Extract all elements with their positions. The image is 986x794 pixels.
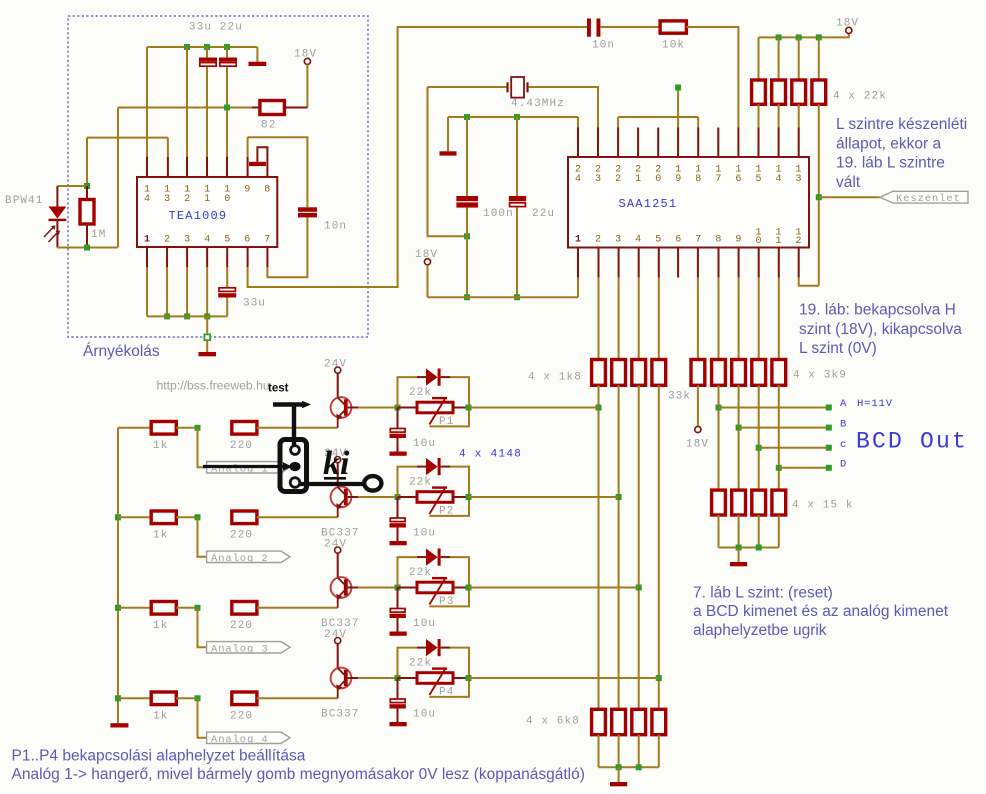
wire rail to ground bar <box>447 117 449 151</box>
shield frame crossing marker <box>204 334 210 340</box>
photodiode BPW41 <box>44 207 66 243</box>
svg-text:B: B <box>840 418 847 430</box>
wire pin 2 to R1k8 <box>598 278 600 360</box>
resistor 1M <box>80 200 94 225</box>
svg-text:33u: 33u <box>243 298 266 310</box>
svg-text:9: 9 <box>244 185 250 196</box>
wire crystal to C100n tap <box>428 87 468 236</box>
pin Q2 base lead <box>348 496 358 498</box>
wire BCD output A <box>719 407 829 409</box>
pin P2 right lead <box>453 496 469 498</box>
svg-text:ki: ki <box>323 445 350 482</box>
ground bar (C10u row 2) <box>390 541 407 545</box>
wire C10u to ground row2 <box>397 528 399 542</box>
svg-text:10u: 10u <box>413 438 436 450</box>
svg-text:BC337: BC337 <box>321 708 360 720</box>
svg-text:4 x 3k9: 4 x 3k9 <box>793 370 847 382</box>
resistor 22k #2 <box>772 80 786 104</box>
svg-text:1k: 1k <box>153 530 168 542</box>
svg-text:1M: 1M <box>91 229 106 241</box>
diode D4 1N4148 <box>426 639 441 656</box>
resistor 22k #1 <box>752 80 766 104</box>
wire R6k8 to ground bus <box>598 735 600 768</box>
svg-text:33u 22u: 33u 22u <box>189 22 243 34</box>
ground bar (15k bus) <box>730 562 747 566</box>
diode D2 1N4148 <box>426 458 441 475</box>
pin Q1 base lead <box>348 407 358 409</box>
svg-text:220: 220 <box>230 711 253 723</box>
svg-text:7: 7 <box>715 174 721 185</box>
svg-text:19. láb: bekapcsolva H: 19. láb: bekapcsolva H <box>799 302 956 319</box>
net flag Analog 3 <box>207 642 290 653</box>
svg-text:4.43MHz: 4.43MHz <box>511 98 565 110</box>
supply pin 24V (row 4) <box>335 638 341 644</box>
junction 15k bus <box>756 545 762 551</box>
capacitor 10u (row 2) <box>390 518 406 528</box>
ground bar (C10u row 4) <box>390 722 407 726</box>
svg-text:33k: 33k <box>668 391 691 403</box>
svg-text:TEA1009: TEA1009 <box>169 209 228 223</box>
wire C22u top lead <box>516 117 518 196</box>
resistor 15k #2 <box>732 490 746 515</box>
resistor 15k #3 <box>752 490 766 515</box>
wire to C10u row4 <box>397 678 399 699</box>
wire to Analog 1 flag <box>198 428 207 468</box>
wire rail to pin22 <box>617 117 619 128</box>
resistor 1k (row 2) <box>151 511 176 524</box>
svg-text:220: 220 <box>230 440 253 452</box>
resistor 6k8 #4 <box>652 709 666 734</box>
wire R1k to R220 row3 <box>176 607 197 609</box>
wire pin 4 to R1k8 <box>638 278 640 360</box>
wire C100n top lead <box>466 117 468 196</box>
pin D1 cathode lead <box>441 376 450 378</box>
svg-text:1: 1 <box>635 174 641 185</box>
svg-text:http://bss.freeweb.hu: http://bss.freeweb.hu <box>157 378 270 392</box>
wire D2 to pot right <box>450 467 469 497</box>
junction pot P1 right <box>466 405 472 411</box>
pin P1 right lead <box>453 407 469 409</box>
junction BPW41/1M bottom <box>84 245 90 251</box>
svg-text:5: 5 <box>655 235 661 246</box>
wire Q2 base to P2 net <box>358 496 398 498</box>
junction base/pot P4 <box>395 675 401 681</box>
capacitor 10u (row 1) <box>390 429 406 439</box>
svg-text:H=11V: H=11V <box>857 398 893 410</box>
wire to diode D4 <box>398 648 418 678</box>
junction base/pot P1 <box>395 405 401 411</box>
svg-text:1k: 1k <box>153 440 168 452</box>
pin P2 left lead <box>398 496 418 498</box>
junction BCD A <box>716 405 722 411</box>
arrow to Analog 1 (black) <box>203 465 284 468</box>
svg-text:4: 4 <box>775 174 781 185</box>
pin P4 right lead <box>453 677 469 679</box>
wire C22u top lead <box>226 47 228 58</box>
junction BCD D <box>776 465 782 471</box>
wire R15k to ground bus <box>778 515 780 548</box>
svg-text:6: 6 <box>675 235 681 246</box>
wire R1k8 to R6k8 #2 <box>618 385 620 709</box>
resistor 3k9 #1 <box>712 360 726 386</box>
wire 24V to Q4 collector <box>337 644 339 668</box>
wire C33u to bus <box>226 298 228 317</box>
svg-text:22k: 22k <box>409 658 432 670</box>
svg-text:7: 7 <box>264 235 270 246</box>
capacitor 33u (TEA decoupling) <box>218 288 236 298</box>
wire to Analog 3 flag <box>198 608 207 648</box>
pin Q3 base lead <box>348 587 358 589</box>
wire Q3 base to P3 net <box>358 587 398 589</box>
pin TEA1009 pin 1 <box>146 247 148 267</box>
switch contact bottom (black) <box>290 478 300 488</box>
pin SAA1251 pin 1 <box>577 248 579 278</box>
junction 6k8 bus <box>616 764 622 770</box>
resistor 15k #1 <box>712 490 726 515</box>
resistor 1k8 #3 <box>632 360 646 386</box>
wire 22k to SAA pin <box>758 104 760 127</box>
pin SAA1251 pin 2 <box>598 248 600 278</box>
shield frame Arnyekolas (dashed box) <box>68 16 368 337</box>
pin TEA1009 pin 5 <box>226 247 228 267</box>
transistor Q3 BC337 <box>331 577 352 608</box>
pin SAA1251 (22k) <box>778 128 780 158</box>
ground bar (TEA pin 8) <box>249 162 266 166</box>
wire R220 to Q3 emitter <box>257 607 338 609</box>
svg-text:L szintre készenléti: L szintre készenléti <box>836 116 967 133</box>
junction rail/C100n <box>464 114 470 120</box>
wire R6k8 to ground bus <box>638 735 640 768</box>
svg-text:4 x 6k8: 4 x 6k8 <box>526 716 580 728</box>
pin TEA1009 pin 3 <box>186 247 188 267</box>
wire R1k to R220 row4 <box>176 697 197 699</box>
junction BCD C <box>756 445 762 451</box>
pin SAA1251 pin 11 <box>778 248 780 278</box>
pin SAA1251 (22k) <box>798 128 800 158</box>
wire pin 3 to R1k8 <box>618 278 620 360</box>
op-amp U TEA1009 (IC body) <box>137 177 277 247</box>
wire R220 to Q1 emitter <box>257 427 338 429</box>
junction rail/C 22u <box>224 44 230 50</box>
pin SAA1251 pin 3 <box>618 248 620 278</box>
resistor 10k <box>660 21 686 33</box>
pin SAA1251 pin 24 <box>577 128 579 158</box>
supply pin 18V (top left) <box>304 58 310 64</box>
svg-text:1k: 1k <box>153 711 168 723</box>
svg-text:Árnyékolás: Árnyékolás <box>83 343 160 360</box>
resistor 1k (row 3) <box>151 602 176 615</box>
net flag Analog 1 <box>207 462 290 473</box>
svg-text:P1..P4 bekapcsolási alaphelyze: P1..P4 bekapcsolási alaphelyzet beállítá… <box>12 748 306 765</box>
svg-text:állapot, ekkor a: állapot, ekkor a <box>836 135 941 152</box>
junction 15k bus <box>736 545 742 551</box>
wire D4 to pot right <box>450 648 469 678</box>
wire R33k to 18V <box>697 385 699 426</box>
pin R 1M bottom lead <box>86 224 88 248</box>
wire R1k8 to R6k8 #4 <box>658 385 660 709</box>
wire bus to ground <box>618 767 620 782</box>
wire R1k8 to R6k8 #3 <box>638 385 640 709</box>
node BCD output end D <box>826 465 832 471</box>
svg-text:18V: 18V <box>686 439 709 451</box>
wire P4 wiper tie <box>429 678 469 697</box>
svg-text:10u: 10u <box>413 709 436 721</box>
resistor 220 (row 2) <box>232 511 257 524</box>
pin Q4 base lead <box>348 677 358 679</box>
wire TEA pin 1 to shield bus <box>146 267 148 316</box>
wire Q1 base to P1 net <box>358 407 398 409</box>
supply pin 24V (row 1) <box>335 367 341 373</box>
svg-text:22k: 22k <box>409 477 432 489</box>
svg-text:4 x 15 k: 4 x 15 k <box>792 500 854 512</box>
wire R6k8 to ground bus <box>618 735 620 768</box>
junction rail/pin12 <box>184 44 190 50</box>
resistor 6k8 #2 <box>612 709 626 734</box>
wire 22k top lead <box>778 37 780 80</box>
capacitor 10u (row 3) <box>390 609 406 619</box>
wire C10n to TEA pin9 <box>248 137 308 207</box>
wire 22k top lead <box>798 37 800 80</box>
wire 18V to supply bus <box>427 265 429 297</box>
wire BPW41 bottom link <box>57 247 117 249</box>
wire SAA pin1 supply bus <box>428 296 579 298</box>
svg-text:7: 7 <box>695 235 701 246</box>
wire TEA pin 4 to shield bus <box>206 267 208 316</box>
diode D1 1N4148 <box>426 369 441 386</box>
pin SAA1251 pin 23 <box>597 128 599 158</box>
svg-text:5: 5 <box>755 174 761 185</box>
pin TEA1009 pin 9 <box>247 157 249 177</box>
svg-text:1: 1 <box>204 194 210 205</box>
resistor 220 (row 1) <box>232 422 257 435</box>
wire R82 row to left <box>118 107 252 109</box>
svg-text:10n: 10n <box>592 40 615 52</box>
svg-text:c: c <box>840 439 847 451</box>
wire to diode D3 <box>398 557 418 587</box>
wire pin12 link <box>799 278 819 286</box>
svg-text:1: 1 <box>775 236 781 247</box>
wire R15k to ground bus <box>718 515 720 548</box>
pin D3 cathode lead <box>441 556 450 558</box>
left supply bus <box>117 428 119 724</box>
wire BCD output D <box>779 467 829 469</box>
supply pin 24V (row 2) <box>335 457 341 463</box>
wire SAA pin24 rail <box>448 116 578 118</box>
pin numbers TEA1009 bottom row <box>144 235 270 246</box>
capacitor 10u (row 4) <box>390 699 406 709</box>
wire 24V to Q2 collector <box>337 463 339 487</box>
svg-text:BC337: BC337 <box>321 527 360 539</box>
pin R82 right lead <box>285 107 308 109</box>
node BCD output end C <box>826 445 832 451</box>
capacitor 10n (TEA, vertical) <box>298 207 317 217</box>
wire P3 net to SAA pin 4 <box>469 587 639 589</box>
pin TEA1009 pin 10 <box>226 157 228 177</box>
wire down to BPW41/1M junction <box>86 138 88 186</box>
svg-text:10k: 10k <box>662 40 685 52</box>
svg-text:BPW41: BPW41 <box>5 195 44 207</box>
junction row 3 analog tap <box>195 605 201 611</box>
svg-text:2: 2 <box>184 194 190 205</box>
potentiometer P2 22k <box>417 488 453 514</box>
svg-text:9: 9 <box>735 235 741 246</box>
svg-text:220: 220 <box>230 530 253 542</box>
junction left bus <box>115 605 121 611</box>
wire 22k #4 to pin12 net <box>818 104 820 285</box>
wire 22k bank 18V rail <box>759 36 846 38</box>
node BCD output end A <box>826 405 832 411</box>
wire TEA pin 2 to shield bus <box>166 267 168 316</box>
svg-text:3: 3 <box>184 235 190 246</box>
pin TEA1009 pin 8 to ground <box>257 147 267 177</box>
pin numbers SAA1251 bottom row <box>575 228 802 248</box>
svg-text:0: 0 <box>755 236 761 247</box>
wire 22k top lead <box>758 37 760 80</box>
pin SAA1251 stub (top) <box>637 128 639 158</box>
pin SAA1251 pin 4 <box>638 248 640 278</box>
wire R220 to Q2 emitter <box>257 516 338 518</box>
supply pin 18V (top right) <box>846 27 852 33</box>
pin TEA1009 pin 4 <box>206 247 208 267</box>
wire 6k8 ground bus <box>599 766 659 768</box>
pin D2 anode lead <box>417 466 426 468</box>
pin R82 left lead <box>252 107 260 109</box>
svg-text:2: 2 <box>795 236 801 247</box>
svg-text:3: 3 <box>615 235 621 246</box>
junction 22k rail <box>816 34 822 40</box>
wire TEA pin6 to top C10n <box>248 27 587 287</box>
svg-text:BCD Out: BCD Out <box>856 429 968 455</box>
wire R3k9 to R15k #1 <box>718 385 720 490</box>
wire row1 bus to R1k <box>118 427 151 429</box>
svg-text:10u: 10u <box>413 528 436 540</box>
junction 22k rail <box>796 34 802 40</box>
junction shield bus <box>164 313 170 319</box>
wire C10u to ground row3 <box>397 618 399 632</box>
wire test net to pin19 <box>677 91 679 128</box>
ground bar (shield bus) <box>199 352 217 356</box>
switch box (black) <box>280 440 307 492</box>
wire R10k to SAA pin16 <box>686 27 738 128</box>
wire R6k8 to ground bus <box>658 735 660 768</box>
wire BPW41 net to pin13 <box>87 137 168 139</box>
pin P3 left lead <box>398 587 418 589</box>
wire bus to ground <box>738 548 740 563</box>
pin SAA1251 pin 19 <box>677 128 679 158</box>
potentiometer P3 22k <box>417 578 453 604</box>
wire R3k9 to R15k #3 <box>758 385 760 490</box>
wire P2 wiper tie <box>429 497 469 516</box>
pin SAA1251 pin 10 <box>758 248 760 278</box>
pin SAA1251 pin 12 <box>798 248 800 278</box>
wire P4 net to SAA pin 5 <box>469 677 659 679</box>
svg-text:0: 0 <box>655 174 661 185</box>
junction base/pot P2 <box>395 494 401 500</box>
wire C33u to TEA pin11 <box>206 67 208 157</box>
pin SAA1251 pin 16 <box>737 128 739 158</box>
wire pin 10 to R3k9 <box>758 278 760 360</box>
pin TEA1009 pin 7 <box>266 247 268 267</box>
wire down to TEA pin13 <box>167 138 169 157</box>
pin SAA1251 pin 6 stub <box>677 248 679 278</box>
wire to C10u row1 <box>397 408 399 429</box>
resistor 1k8 #1 <box>592 360 606 386</box>
pin TEA1009 pin 2 <box>166 247 168 267</box>
resistor 3k9 #4 <box>772 360 786 386</box>
resistor 82 <box>260 101 285 115</box>
resistor 3k9 #3 <box>752 360 766 386</box>
junction pot P2 right <box>466 494 472 500</box>
wire R15k to ground bus <box>758 515 760 548</box>
wire 24V to Q3 collector <box>337 553 339 577</box>
ground bar (pin24 rail) <box>440 151 457 155</box>
svg-text:10n: 10n <box>324 221 347 233</box>
junction Keszenlet <box>816 194 822 200</box>
svg-text:BC337: BC337 <box>321 618 360 630</box>
svg-text:4 x 22k: 4 x 22k <box>833 91 887 103</box>
wire to C10u row3 <box>397 588 399 609</box>
wire to C10u row2 <box>397 497 399 518</box>
net flag Analog 2 <box>207 551 290 562</box>
svg-text:3: 3 <box>164 194 170 205</box>
svg-text:22k: 22k <box>409 567 432 579</box>
pin SAA1251 pin 22 <box>617 128 619 158</box>
switch contact top (black) <box>291 446 300 455</box>
wire crystal left <box>428 86 507 88</box>
wire to Analog 2 flag <box>198 517 207 557</box>
wire bus to SAA pin1 <box>577 278 579 298</box>
wire pin 8 to R3k9 <box>718 278 720 360</box>
crystal Q 4.43MHz <box>506 77 528 98</box>
pin P4 left lead <box>398 677 418 679</box>
wire rail to pin18 <box>697 117 699 128</box>
junction base/pot P3 <box>395 585 401 591</box>
svg-text:4 x 4148: 4 x 4148 <box>459 449 522 461</box>
wire row2 bus to R1k <box>118 516 151 518</box>
pin SAA1251 pin 5 <box>658 248 660 278</box>
wire row4 bus to R1k <box>118 697 151 699</box>
wire pin9 up <box>247 137 249 157</box>
junction left bus <box>115 514 121 520</box>
pin numbers SAA1251 top row <box>575 165 802 186</box>
svg-text:2: 2 <box>164 235 170 246</box>
net flag Keszenlet <box>880 191 968 203</box>
svg-text:4 x 1k8: 4 x 1k8 <box>528 372 582 384</box>
resistor 15k #4 <box>772 490 786 515</box>
wire R15k to ground bus <box>738 515 740 548</box>
wire 22k to SAA pin <box>778 104 780 127</box>
svg-text:2: 2 <box>615 174 621 185</box>
svg-text:Keszenlet: Keszenlet <box>896 193 961 205</box>
svg-text:1: 1 <box>144 235 150 246</box>
svg-text:7. láb L szint: (reset): 7. láb L szint: (reset) <box>693 585 833 602</box>
wire crystal to SAA pin23 <box>529 87 598 128</box>
capacitor 22u (SAA supply) <box>509 196 526 207</box>
junction BCD B <box>736 425 742 431</box>
resistor 220 (row 3) <box>232 602 257 615</box>
wire R1k to R220 row1 <box>176 427 197 429</box>
terminal ki (black circle) <box>364 476 381 490</box>
svg-text:82: 82 <box>261 120 276 132</box>
wire P1 wiper tie <box>429 408 469 427</box>
capacitor 10n (series, top) <box>587 19 600 37</box>
junction C22u/supply bus <box>514 294 520 300</box>
antenna symbol test (black) <box>273 405 303 447</box>
svg-text:Analóg 1-> hangerő, mivel bárm: Analóg 1-> hangerő, mivel bármely gomb m… <box>12 766 585 783</box>
svg-text:8: 8 <box>695 174 701 185</box>
pin D2 cathode lead <box>441 466 450 468</box>
wire 22k to SAA pin <box>798 104 800 127</box>
